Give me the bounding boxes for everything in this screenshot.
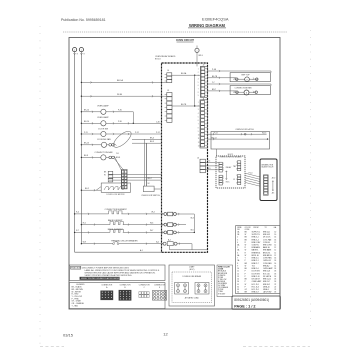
svg-text:P: P (245, 260, 246, 262)
label PAGE 1/2 (234, 304, 255, 308)
label relay (226, 166, 232, 169)
svg-text:ERB CONV: ERB CONV (263, 245, 272, 247)
connector C grid (139, 292, 149, 298)
svg-text:16: 16 (274, 258, 276, 260)
diagram outer border (69, 38, 280, 310)
svg-text:COLOR: COLOR (245, 227, 252, 229)
EOC internal arrow (226, 171, 228, 180)
wire J2 pin to conv fan box top (207, 83, 271, 85)
connector J4 ticks (165, 74, 167, 81)
title WIRING DIAGRAM (189, 23, 226, 28)
junction bus/J4 wire (81, 82, 82, 83)
connector strip P1 outline (121, 169, 127, 189)
label LIMIT (189, 267, 195, 269)
svg-text:CODE: CODE (218, 269, 224, 271)
svg-text:P: P (245, 281, 246, 283)
svg-text:BK-1A: BK-1A (117, 79, 123, 82)
svg-text:18: 18 (274, 271, 276, 273)
svg-text:GLASS TOUCH: GLASS TOUCH (261, 166, 274, 169)
svg-text:FUNCTION:: FUNCTION: (71, 268, 82, 270)
EOC connector TB1 cells (237, 161, 240, 171)
svg-text:ERB J4-3: ERB J4-3 (263, 234, 270, 236)
wire bus to door lock box (81, 189, 101, 191)
svg-text:ERB J2-1: ERB J2-1 (252, 260, 259, 262)
svg-text:33: 33 (237, 289, 239, 291)
svg-text:12: 12 (274, 242, 276, 244)
svg-text:W-13: W-13 (262, 132, 266, 134)
title underline (188, 27, 226, 29)
wire bake element to plug (123, 224, 164, 226)
svg-text:J3: J3 (167, 90, 169, 92)
svg-text:BAKE ELEMENT: BAKE ELEMENT (108, 219, 123, 222)
wire convection element to plug (121, 213, 163, 215)
svg-text:12: 12 (163, 332, 168, 337)
supply terminal L1 (73, 48, 77, 52)
label ceramic hob (261, 163, 274, 166)
note line 4 (85, 274, 133, 277)
svg-text:CONV EL: CONV EL (263, 242, 270, 244)
wire convection fan to connector strip (114, 156, 121, 170)
label TB1 (233, 166, 236, 168)
svg-text:CONVECTION ELEMENT: CONVECTION ELEMENT (105, 209, 128, 211)
wire bus to broil element (75, 231, 110, 233)
connector J8 pins (108, 171, 113, 182)
wire bus to bake element (81, 224, 110, 226)
label CONNECTOR B (120, 285, 132, 287)
wire J4 to J2 (172, 74, 201, 76)
label Y-7 (212, 82, 215, 84)
wire latch upper (207, 133, 266, 135)
EOC pin number specks (223, 161, 237, 184)
wire cooling fan to plug (107, 144, 109, 146)
wire down to door switch b (146, 143, 148, 186)
contact (255, 91, 258, 94)
label A 3 (272, 191, 275, 194)
oven light lamp (245, 77, 250, 82)
wire latch switch to board edge (154, 188, 161, 190)
svg-text:7: 7 (237, 258, 238, 260)
limit box (169, 265, 215, 306)
label BAKE ELEMENT (108, 219, 123, 222)
wire bus A bottom return (75, 251, 162, 253)
registration dotted line right (310, 30, 312, 332)
svg-text:EI30EF4CQSA: EI30EF4CQSA (202, 17, 229, 22)
junction J4 wire / BR-9 drop (194, 75, 195, 76)
wire J6 to EOC 2 (205, 165, 219, 167)
svg-text:BK-13: BK-13 (84, 143, 89, 145)
svg-text:OVEN LGT: OVEN LGT (263, 260, 271, 262)
connector J4 cells (167, 73, 172, 83)
wire slant into door lock box (96, 187, 101, 191)
svg-text:EOC J10: EOC J10 (263, 273, 270, 275)
top dashed separator line (63, 31, 287, 33)
svg-text:P: P (245, 286, 246, 288)
label W-9 (83, 242, 86, 244)
wire latch box to EOC board (215, 149, 217, 156)
svg-text:W-1B: W-1B (117, 94, 123, 96)
svg-text:30: 30 (237, 281, 239, 283)
label Y-8 (116, 153, 119, 155)
label CONVECTION FAN right (235, 86, 252, 89)
plug thermal breaker (163, 242, 177, 246)
wire plug4 right (177, 243, 192, 245)
svg-text:THERMAL CIRCUIT BREAKER: THERMAL CIRCUIT BREAKER (111, 239, 138, 242)
plug bake element (164, 223, 176, 227)
wire strip row 2 (109, 176, 162, 178)
door switch S1 (101, 131, 106, 136)
svg-text:WIRING DIAGRAM: WIRING DIAGRAM (189, 23, 226, 28)
oven lamp DS1 (101, 109, 106, 114)
label CONNECTOR C (139, 285, 151, 287)
svg-text:BROIL EL: BROIL EL (263, 252, 270, 254)
wire loop net to board lower (132, 142, 162, 144)
touch board connector outline (263, 175, 268, 196)
label J2 (203, 65, 205, 67)
wire plug1 right (176, 213, 194, 215)
label DOUBLE LINE BREAK (183, 275, 202, 278)
svg-text:A 3: A 3 (272, 191, 275, 194)
label CONNECTOR A (101, 285, 113, 287)
svg-text:6: 6 (237, 252, 238, 254)
label AT RATED LOAD (185, 297, 200, 300)
svg-text:VERIFY PROPER OPERATION AFTER: VERIFY PROPER OPERATION AFTER SERVICING. (81, 277, 124, 280)
wire plug2 right (176, 224, 186, 226)
legend box (69, 283, 165, 309)
label EOC sub (189, 269, 194, 271)
label W-5 (191, 230, 194, 232)
label J3 (167, 90, 169, 92)
svg-text:809126501 (A00940601): 809126501 (A00940601) (234, 298, 269, 302)
label BK-7B (212, 76, 218, 78)
svg-text:BK-8: BK-8 (84, 155, 88, 157)
svg-text:14: 14 (274, 265, 276, 267)
wire inline connector chevrons (88, 70, 254, 245)
svg-text:1-30: 1-30 (156, 121, 160, 123)
convection fan motor B2 (101, 155, 106, 160)
wire board bottom net (170, 249, 208, 251)
note line 1 (82, 268, 130, 270)
svg-text:FROM: FROM (254, 227, 259, 229)
svg-text:32: 32 (237, 286, 239, 288)
wire latch lower (207, 138, 267, 140)
svg-text:ERB J1-6: ERB J1-6 (252, 268, 259, 270)
plug contact (109, 144, 112, 147)
label 1-30 (156, 121, 160, 123)
svg-text:BROIL EL: BROIL EL (252, 255, 259, 257)
svg-text:BK-2: BK-2 (148, 178, 152, 180)
svg-text:ERB J1-4: ERB J1-4 (252, 239, 259, 241)
svg-text:R-7: R-7 (76, 230, 79, 232)
wire J6 to EOC 1 (205, 162, 219, 164)
door lock motor heater zigzag (104, 187, 125, 190)
svg-text:S2: S2 (148, 183, 150, 185)
connector J6 cells (200, 159, 205, 173)
svg-text:03/15: 03/15 (63, 332, 74, 337)
wire plug3 right (176, 231, 194, 233)
limit inner box (172, 272, 212, 303)
wire J6 to EOC 3 (205, 169, 219, 171)
svg-text:BK-2: BK-2 (85, 188, 89, 190)
svg-text:18: 18 (274, 260, 276, 262)
label A-1 (140, 249, 143, 252)
connector J3 cells (167, 93, 172, 123)
label part number (234, 298, 269, 302)
svg-text:18: 18 (274, 273, 276, 275)
connector J1 pin numbers (198, 102, 200, 147)
plug contact (112, 144, 115, 147)
svg-text:R-6: R-6 (83, 222, 86, 224)
label OVEN CIRCUIT (176, 39, 194, 42)
svg-text:ERB J1-12: ERB J1-12 (263, 279, 271, 281)
label glass touch (261, 166, 274, 169)
svg-text:18: 18 (274, 281, 276, 283)
connector J1 pins (201, 101, 205, 147)
wire bus to thermal breaker (81, 243, 113, 245)
wire bus to cooling fan (81, 144, 101, 146)
svg-text:P-11: P-11 (84, 132, 88, 134)
label BK-10 (84, 110, 89, 112)
svg-text:OVEN LAMP: OVEN LAMP (97, 116, 109, 119)
label CONVECTION FAN (95, 151, 113, 154)
touch board connector cells (264, 175, 268, 194)
svg-text:Y YELLOW: Y YELLOW (218, 279, 227, 281)
wire strip row 1 (109, 173, 162, 175)
highlighted note bar (80, 277, 120, 280)
plug contact (112, 156, 115, 159)
svg-text:W-4: W-4 (191, 217, 194, 219)
label eoc small (226, 181, 230, 183)
svg-text:A-1: A-1 (140, 249, 143, 252)
latch contact (244, 133, 246, 135)
svg-text:16: 16 (274, 237, 276, 239)
wire bus to lamp1 (81, 111, 100, 113)
svg-text:EOC J5-1: EOC J5-1 (252, 289, 259, 291)
svg-text:P: P (245, 273, 246, 275)
label P-10 (249, 173, 253, 175)
connector J3 ticks (165, 95, 167, 121)
junction latch wire (267, 138, 268, 139)
label WIRE COLOR (218, 267, 230, 269)
svg-text:BK-3: BK-3 (150, 141, 154, 143)
svg-text:ERB J6-2: ERB J6-2 (263, 284, 270, 286)
svg-text:8: 8 (237, 263, 238, 265)
wire J2 pin to oven light box top (207, 70, 271, 72)
svg-text:R-4: R-4 (76, 212, 79, 214)
function notes box (69, 265, 165, 281)
connector J1 outline (200, 100, 207, 148)
wire convection fan to connector strip 2 (114, 159, 124, 171)
wire internal vertical (194, 75, 196, 106)
label J5 (233, 179, 235, 181)
label P-30 (118, 110, 122, 112)
connector B grid (dark) (119, 290, 132, 301)
note line 3 (85, 272, 156, 275)
svg-text:(EOC): (EOC) (189, 269, 194, 271)
label W-13 (262, 132, 266, 134)
svg-text:DR LOCK: DR LOCK (263, 237, 271, 239)
plug convection element (164, 212, 176, 216)
svg-text:18: 18 (274, 292, 276, 294)
EOC connector J5 cells (237, 175, 240, 185)
label BR-9 (199, 55, 203, 57)
svg-text:12: 12 (274, 245, 276, 247)
EOC control board outline (216, 156, 245, 188)
label R-6 (83, 222, 86, 224)
wire down to door switch b (146, 143, 148, 186)
svg-text:BU BLUE: BU BLUE (218, 281, 226, 283)
svg-text:9: 9 (237, 265, 238, 267)
svg-text:R RED: R RED (218, 277, 224, 279)
svg-text:ERB J1-7: ERB J1-7 (263, 281, 270, 283)
svg-text:x: x (197, 50, 198, 52)
svg-text:3: 3 (237, 239, 238, 241)
wire plug4 stub down (169, 246, 171, 250)
svg-text:BK-9A: BK-9A (181, 72, 187, 75)
svg-text:11: 11 (237, 271, 239, 273)
wire broil element to plug (123, 231, 164, 233)
oven door latch box (211, 132, 270, 150)
svg-text:31: 31 (237, 284, 239, 286)
label BR-7 (212, 89, 216, 91)
svg-text:12: 12 (274, 247, 276, 249)
svg-text:A-2: A-2 (156, 241, 159, 244)
label W-7 (150, 230, 153, 232)
wire strip row 3 (109, 179, 162, 181)
wire color code column box (217, 265, 233, 297)
svg-text:Y-7: Y-7 (212, 82, 215, 84)
wire lamp2 to board edge (106, 122, 162, 124)
wire bus to board J4 (81, 81, 166, 83)
svg-text:ERB BROIL: ERB BROIL (263, 255, 272, 257)
label LEGEND (76, 284, 85, 286)
svg-text:A 10: A 10 (272, 177, 275, 180)
label P-7A (212, 68, 217, 71)
label A 10 (272, 177, 275, 180)
relay contact diagram 2 (195, 283, 209, 295)
svg-text:5: 5 (237, 247, 238, 249)
plug broil element (164, 231, 176, 235)
wire door switch to board edge (106, 133, 162, 135)
label A-2 (168, 238, 171, 241)
EOC connector J9 cells (219, 175, 222, 185)
svg-text:2: 2 (237, 237, 238, 239)
label OVEN RELAY BOARD (155, 55, 176, 58)
note line 2 (85, 269, 161, 272)
svg-text:DOOR SW: DOOR SW (252, 273, 260, 275)
label P-13 (214, 132, 218, 134)
relay contact diagram 1 (175, 283, 189, 295)
label CONNECTOR D (154, 285, 166, 287)
wire J2 pin into oven light box (207, 77, 236, 79)
FUNCTION label box (71, 266, 81, 269)
svg-text:VERIFY PROPER OPERATION AFTER: VERIFY PROPER OPERATION AFTER SERVICING. (85, 274, 133, 277)
header model number (202, 17, 229, 22)
svg-text:OVEN CIRCUIT: OVEN CIRCUIT (176, 39, 194, 42)
svg-text:BK-3: BK-3 (150, 137, 154, 139)
svg-text:12: 12 (274, 252, 276, 254)
contact (236, 78, 239, 81)
supply terminal N (79, 48, 83, 52)
footer page 12 (163, 332, 168, 337)
label R-4 (76, 212, 79, 214)
junction lamp net (133, 123, 134, 124)
svg-text:BR-8: BR-8 (116, 157, 120, 159)
label BROIL ELEMENT (108, 229, 124, 231)
svg-text:EOC J5-3: EOC J5-3 (252, 286, 259, 288)
label P-11 (84, 132, 88, 134)
label OVEN DOOR LATCH (235, 128, 254, 131)
svg-text:16: 16 (274, 239, 276, 241)
svg-text:W-9: W-9 (83, 242, 86, 244)
svg-text:P: P (245, 271, 246, 273)
label J6 (197, 158, 199, 160)
svg-text:Y-8: Y-8 (116, 153, 119, 155)
wire plug1 down (193, 214, 195, 232)
label W-5 small (208, 168, 211, 170)
wire J3 to J1 (172, 105, 200, 107)
connector J2 pins (201, 67, 205, 97)
wire bus to convection element (75, 213, 109, 215)
wire lamp1 to corner (106, 111, 133, 113)
wire bus to convection fan (81, 156, 100, 158)
wire harness table header (237, 226, 277, 231)
svg-text:AT RATED LOAD: AT RATED LOAD (185, 297, 200, 300)
svg-text:SUPPLY N: SUPPLY N (252, 234, 261, 236)
label BK-13 (84, 143, 89, 145)
wire down to door switch a (143, 139, 145, 186)
svg-text:J4: J4 (167, 70, 169, 72)
convection fan motor symbol (244, 90, 249, 95)
legend color code rows (72, 286, 85, 308)
touch control board box (260, 159, 277, 201)
oven light box (230, 73, 270, 82)
junction bus/J3 wire (81, 96, 82, 97)
label COOLING FAN (97, 138, 111, 141)
svg-text:PAGE : 1 / 2: PAGE : 1 / 2 (234, 304, 255, 308)
svg-text:BK-10: BK-10 (84, 110, 89, 112)
svg-text:P-5: P-5 (208, 161, 211, 163)
ribbon bundle EOC to touch control (245, 173, 260, 186)
svg-text:22: 22 (274, 289, 276, 291)
svg-text:DOUBLE LINE BREAK: DOUBLE LINE BREAK (183, 275, 202, 278)
svg-text:CONVECTION FAN: CONVECTION FAN (235, 86, 252, 89)
svg-text:P-10: P-10 (249, 173, 253, 175)
label P-5 (208, 161, 211, 163)
plug contact (109, 156, 112, 159)
svg-text:BR-7: BR-7 (212, 89, 216, 91)
wire loop net to board upper (132, 138, 162, 140)
EOC connector J10 cells (219, 162, 222, 172)
svg-text:CONV EL: CONV EL (252, 245, 259, 247)
connector J2 outline (200, 66, 207, 97)
svg-text:BK-10: BK-10 (84, 121, 89, 123)
svg-text:OVEN LAMP: OVEN LAMP (97, 104, 109, 107)
wire bus to board J3 (81, 95, 166, 97)
label W-6 (150, 222, 153, 224)
wire harness table (236, 226, 280, 294)
svg-text:OVEN RELAY BOARD: OVEN RELAY BOARD (155, 55, 176, 58)
label REF TOP (241, 75, 250, 77)
note line 5 highlighted (81, 277, 124, 280)
svg-text:ERB J2-7: ERB J2-7 (252, 263, 259, 265)
svg-text:CONVECTION FAN: CONVECTION FAN (95, 151, 113, 154)
convection fan box (230, 86, 270, 95)
label OVEN LAMP 1 (97, 104, 109, 107)
label BK (104, 172, 107, 174)
contact (236, 91, 239, 94)
svg-text:10: 10 (274, 231, 276, 233)
connector J2 pin numbers (198, 69, 199, 98)
